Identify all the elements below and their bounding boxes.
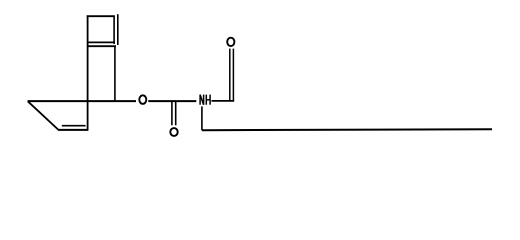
- cyclobutene ring top edge: [87, 15, 115, 17]
- lower ring double bond inner line: [62, 125, 86, 127]
- long alkyl chain bond (bottom): [202, 129, 492, 130]
- atom O (ester oxygen): [139, 95, 146, 104]
- atom N letter: [200, 95, 204, 105]
- bond N to chain CH2 (vertical): [201, 106, 203, 130]
- atom H letter: [206, 95, 210, 105]
- formyl C=O double bond line 2: [232, 49, 234, 101]
- main horizontal bond chain to ester O: [28, 100, 136, 102]
- atom O (formyl oxygen top): [227, 38, 234, 46]
- ring bottom edge bond: [88, 41, 115, 43]
- bond O to carbonyl C to N: [148, 100, 196, 102]
- lower ring bottom bond: [58, 129, 88, 131]
- ring right edge bond: [113, 16, 115, 44]
- double bond second line (bottom): [88, 45, 116, 47]
- atom O (carbonyl oxygen below): [170, 128, 177, 136]
- carbonyl C=O double bond line 2: [175, 102, 177, 126]
- diagonal bond of lower ring: [28, 101, 59, 130]
- bond NH to formyl C: [212, 100, 235, 102]
- middle ring right vertical bond: [114, 46, 116, 101]
- left vertical bond (ring left edge, shared): [87, 15, 89, 130]
- double bond second line (right, outer): [117, 14, 119, 45]
- carbonyl C=O double bond line 1: [171, 102, 173, 126]
- formyl C=O double bond line 1: [229, 49, 231, 101]
